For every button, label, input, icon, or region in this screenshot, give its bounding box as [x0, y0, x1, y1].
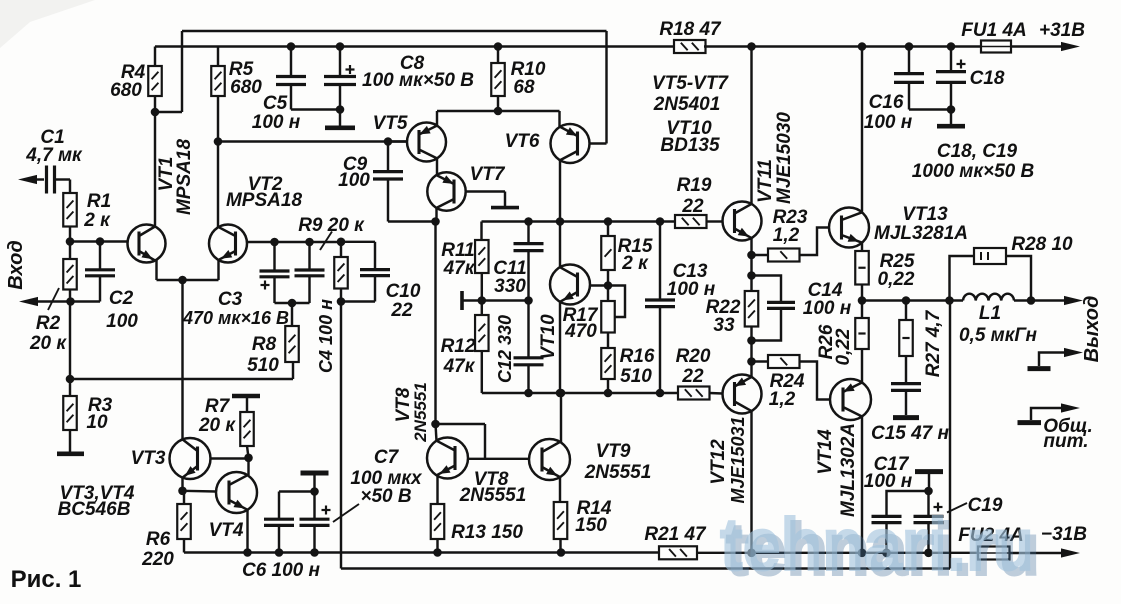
- ground bar C15: [893, 415, 919, 420]
- wire VT7 emitter: [435, 208, 437, 221]
- capacitor C2: [99, 242, 101, 270]
- svg-text:680: 680: [230, 77, 262, 98]
- arrow -31V output: [1061, 548, 1080, 557]
- svg-text:R2: R2: [36, 313, 61, 334]
- resistor R16: [607, 333, 609, 349]
- svg-text:R9 20 к: R9 20 к: [298, 215, 365, 236]
- svg-text:2N5401: 2N5401: [653, 94, 721, 115]
- node R8 top: [288, 299, 297, 308]
- wire mid rail upper: [750, 255, 752, 291]
- node C3 top: [270, 238, 279, 247]
- capacitor C8: [339, 47, 341, 77]
- svg-text:1000 мк×50 В: 1000 мк×50 В: [912, 161, 1035, 182]
- wire VAS top: [482, 220, 676, 222]
- capacitor C10: [341, 241, 375, 243]
- wire VT3 emitter to VT4 base: [181, 478, 183, 491]
- svg-text:C4 100 н: C4 100 н: [316, 299, 336, 373]
- arrow input ground: [19, 297, 38, 306]
- svg-text:C7: C7: [374, 447, 400, 468]
- wire ground bus left: [70, 378, 293, 380]
- node R16 bottom: [604, 389, 613, 398]
- resistor R18: [674, 40, 706, 53]
- wire VT9 collector: [560, 393, 562, 443]
- svg-text:510: 510: [247, 355, 279, 376]
- svg-text:C10: C10: [386, 281, 421, 302]
- svg-text:4,7 мк: 4,7 мк: [25, 145, 83, 166]
- transistor VT11: [723, 202, 762, 241]
- node VT10 emitter: [556, 389, 565, 398]
- svg-text:C16: C16: [869, 92, 904, 113]
- capacitor C14: [752, 276, 782, 303]
- node VT11 emitter: [747, 251, 756, 260]
- wire C7 bar riser: [313, 476, 315, 492]
- svg-text:150: 150: [575, 515, 607, 536]
- svg-text:2N5551: 2N5551: [459, 485, 527, 506]
- capacitor C13: [659, 222, 661, 301]
- svg-text:100: 100: [106, 311, 138, 332]
- wire VT8 emitter: [436, 476, 438, 505]
- common power arrow: [1018, 420, 1042, 425]
- node C14 top stub: [747, 271, 756, 280]
- capacitor C5: [290, 47, 292, 77]
- svg-text:tehnari.ru: tehnari.ru: [720, 504, 1034, 586]
- node R5 bottom: [214, 137, 223, 146]
- node R10 bottom: [494, 107, 503, 116]
- transistor VT5: [407, 123, 446, 162]
- wire mid rail lower: [750, 327, 752, 378]
- svg-text:R13 150: R13 150: [451, 522, 523, 543]
- svg-text:C12 330: C12 330: [495, 315, 515, 383]
- capacitor C1: [45, 166, 48, 194]
- svg-text:R21 47: R21 47: [644, 524, 707, 545]
- watermark tehnari.ru: [720, 504, 1040, 591]
- svg-text:100 мк×50 В: 100 мк×50 В: [362, 70, 474, 91]
- fuse FU1: [981, 41, 1011, 53]
- svg-text:BC546В: BC546В: [58, 499, 131, 520]
- svg-text:R8: R8: [252, 334, 277, 355]
- svg-text:MJE15031: MJE15031: [728, 416, 748, 503]
- capacitor C18: [950, 47, 952, 72]
- resistor R23: [752, 254, 769, 256]
- transistor VT14: [830, 379, 871, 420]
- bottom rail junction dots: [243, 548, 252, 557]
- ground bar C17 C19 top: [915, 469, 943, 474]
- wire emitters VT1 VT2: [155, 260, 157, 280]
- svg-text:C5: C5: [263, 93, 288, 114]
- wire VT9 emitter: [559, 477, 561, 502]
- wire bottom rail right: [697, 552, 978, 554]
- svg-text:2 к: 2 к: [621, 253, 649, 274]
- pointer C7 label: [333, 504, 359, 522]
- svg-text:Выход: Выход: [1081, 296, 1103, 363]
- svg-text:20 к: 20 к: [29, 333, 67, 354]
- svg-text:C2: C2: [109, 288, 134, 309]
- transistor VT13: [829, 208, 869, 248]
- svg-text:MPSA18: MPSA18: [174, 139, 195, 215]
- capacitor C7: [313, 492, 315, 520]
- node C9 top: [384, 137, 393, 146]
- node C12 bottom: [524, 389, 533, 398]
- resistor R22: [745, 291, 759, 327]
- node C6 C7: [310, 487, 319, 496]
- node C17 C19: [924, 487, 933, 496]
- wire VT8 base tie: [436, 423, 486, 425]
- node tail: [178, 276, 187, 285]
- wire VT2 base: [247, 241, 342, 243]
- node R15 top: [604, 217, 613, 226]
- resistor R12: [475, 315, 489, 351]
- capacitor C4: [308, 242, 310, 270]
- wire VT2 collector riser: [217, 142, 219, 228]
- svg-text:+31В: +31В: [1039, 20, 1085, 41]
- svg-text:C6 100 н: C6 100 н: [242, 560, 321, 581]
- resistor R19: [675, 215, 707, 228]
- svg-text:R27 4,7: R27 4,7: [923, 309, 944, 377]
- node input base: [66, 237, 75, 246]
- node R2 R3 junction: [66, 375, 75, 384]
- arrow output: [1064, 296, 1083, 305]
- node VT10 base: [604, 281, 613, 290]
- node C11 top: [524, 217, 533, 226]
- bar mid reference: [460, 291, 464, 310]
- wire VT8 collector line: [434, 222, 436, 425]
- svg-text:20 к: 20 к: [198, 415, 236, 436]
- transistor VT1: [128, 225, 166, 263]
- svg-text:VT5-VT7: VT5-VT7: [652, 73, 729, 94]
- svg-text:R20: R20: [676, 346, 711, 367]
- svg-text:R28 10: R28 10: [1011, 234, 1073, 255]
- svg-text:VT5: VT5: [373, 113, 408, 134]
- wire VT11 collector: [750, 47, 752, 205]
- resistor R21: [659, 546, 697, 559]
- resistor R9: [340, 242, 342, 257]
- svg-text:BD135: BD135: [660, 135, 720, 156]
- svg-text:1,2: 1,2: [773, 225, 800, 246]
- svg-text:VT4: VT4: [209, 520, 244, 541]
- wire VT7 base to bar: [466, 190, 505, 192]
- svg-text:MJE15030: MJE15030: [774, 112, 795, 204]
- transistor VT2: [209, 225, 247, 263]
- resistor R5: [217, 47, 219, 67]
- resistor R14: [554, 502, 568, 539]
- svg-text:VT14: VT14: [815, 429, 836, 475]
- svg-text:2N5551: 2N5551: [411, 382, 430, 443]
- svg-text:22: 22: [681, 366, 704, 387]
- node VT3e R6: [178, 487, 187, 496]
- wire VT1 collector to VT6 base: [155, 111, 182, 113]
- svg-text:R1: R1: [87, 191, 111, 212]
- svg-text:68: 68: [513, 77, 535, 98]
- capacitor C3: [273, 242, 275, 271]
- resistor R7: [246, 396, 248, 412]
- wire output: [862, 299, 963, 301]
- capacitor C12: [527, 301, 529, 358]
- trimmer R17: [607, 286, 609, 302]
- svg-text:VT11: VT11: [755, 159, 776, 203]
- wire tail to VT3: [181, 280, 183, 440]
- transistor VT8: [427, 438, 468, 479]
- wire VT10 collector: [559, 222, 561, 268]
- node feedback out: [945, 296, 954, 305]
- svg-text:C18: C18: [970, 68, 1005, 89]
- resistor R25: [855, 251, 869, 285]
- transistor VT6: [551, 124, 590, 163]
- capacitor C19: [927, 491, 929, 516]
- resistor R3: [69, 379, 71, 396]
- transistor VT7: [427, 172, 465, 210]
- resistor R13: [431, 504, 445, 539]
- svg-text:100 н: 100 н: [803, 298, 852, 319]
- resistor R28 loop: [950, 256, 975, 301]
- arrow input: [18, 175, 37, 184]
- wire VT13 collector: [861, 47, 863, 212]
- node VT8 collector tie: [431, 420, 440, 429]
- node VT10 collector: [556, 217, 565, 226]
- wire VT13 emitter: [861, 243, 863, 251]
- node R24 stub: [747, 357, 756, 366]
- ground bar VT7 base: [491, 206, 519, 210]
- pointer R2 label: [48, 288, 59, 310]
- node C11 C12: [524, 296, 533, 305]
- pointer R9 label: [320, 232, 332, 251]
- svg-text:FU1 4A: FU1 4A: [961, 20, 1026, 41]
- wire R11R12 to C11C12: [482, 299, 529, 301]
- svg-text:47к: 47к: [443, 356, 476, 377]
- ground bar C7 top: [301, 471, 329, 476]
- node R27 top: [902, 296, 911, 305]
- transistor VT3: [170, 438, 211, 479]
- node C2 top: [96, 237, 105, 246]
- svg-text:VT6: VT6: [505, 131, 540, 152]
- svg-text:C15 47 н: C15 47 н: [871, 423, 950, 444]
- node R4 bottom: [151, 108, 160, 117]
- svg-text:Рис. 1: Рис. 1: [11, 566, 82, 593]
- wire VT10 base: [590, 284, 608, 286]
- node R28 right: [1027, 296, 1036, 305]
- svg-text:VT10: VT10: [538, 314, 559, 360]
- wire bottom rail left: [184, 551, 659, 553]
- svg-text:22: 22: [390, 300, 413, 321]
- svg-text:100 н: 100 н: [252, 112, 301, 133]
- ground bar R7 top: [232, 394, 260, 399]
- resistor R4: [154, 47, 156, 67]
- svg-text:510: 510: [620, 366, 652, 387]
- node VT3 base R7: [244, 454, 253, 463]
- wire VT14 collector: [861, 415, 863, 553]
- junction dots on +31V rail: [287, 42, 296, 51]
- svg-text:0,22: 0,22: [833, 328, 854, 365]
- wire VT11 emitter: [750, 238, 752, 256]
- transistor VT10: [550, 265, 590, 305]
- svg-text:C18, C19: C18, C19: [937, 141, 1018, 162]
- svg-text:R6: R6: [146, 529, 171, 550]
- resistor R26: [855, 318, 869, 349]
- node C13 bottom: [656, 389, 665, 398]
- resistor R11: [480, 222, 482, 241]
- wire VT5 emitter to VT7: [436, 159, 438, 176]
- wire VT5 base: [388, 140, 407, 142]
- node VT7 emitter: [431, 217, 440, 226]
- wire VAS bottom: [529, 392, 679, 394]
- node feedback: [337, 297, 346, 306]
- node output left: [858, 296, 867, 305]
- capacitor C15: [891, 382, 921, 385]
- svg-text:0,22: 0,22: [878, 269, 915, 290]
- resistor R6: [183, 491, 185, 504]
- svg-text:33: 33: [713, 315, 735, 336]
- wire to side bar: [463, 299, 482, 301]
- wire VT6 emitter riser: [559, 160, 561, 222]
- transistor VT12: [723, 375, 762, 414]
- resistor R15: [607, 222, 609, 237]
- node R9 top: [337, 238, 346, 247]
- wire VT3 base to R7: [211, 457, 249, 459]
- wire C6 top: [279, 490, 315, 492]
- svg-text:10: 10: [86, 412, 108, 433]
- transistor VT4: [216, 472, 257, 513]
- inductor L1: [963, 294, 1014, 301]
- svg-text:R16: R16: [620, 346, 655, 367]
- wire C3 C4 bottom: [275, 302, 310, 304]
- wire VT1 collector riser: [154, 112, 156, 227]
- node C14 bottom stub: [747, 336, 756, 345]
- wire +31V top rail: [155, 45, 674, 47]
- wire to -31V arrow: [1010, 552, 1067, 554]
- node C8 ground: [336, 105, 345, 114]
- svg-text:−31В: −31В: [1041, 524, 1087, 545]
- transistor VT9: [529, 439, 570, 480]
- svg-text:R19: R19: [677, 175, 712, 196]
- pointer C19 label: [947, 503, 967, 513]
- svg-text:220: 220: [141, 549, 174, 570]
- resistor R20: [678, 387, 710, 400]
- resistor R8: [291, 303, 293, 326]
- svg-text:MPSA18: MPSA18: [226, 190, 302, 211]
- svg-text:×50 В: ×50 В: [360, 486, 412, 507]
- ground bar R3: [57, 451, 84, 456]
- node VT9 collector: [557, 389, 566, 398]
- svg-text:VT7: VT7: [470, 164, 506, 185]
- node R11 R12: [478, 296, 487, 305]
- svg-text:100 н: 100 н: [864, 112, 913, 133]
- wire feedback: [340, 302, 342, 569]
- svg-text:C3: C3: [218, 289, 243, 310]
- capacitor C17: [887, 491, 929, 516]
- wire VT12 collector: [750, 411, 752, 553]
- resistor R27: [905, 301, 907, 321]
- svg-text:R18 47: R18 47: [659, 19, 722, 40]
- svg-text:2 к: 2 к: [83, 210, 111, 231]
- resistor R10: [497, 47, 499, 64]
- ground bar C5 C8: [325, 126, 355, 131]
- svg-text:470: 470: [564, 321, 597, 342]
- resistor R24: [752, 360, 769, 362]
- resistor R2: [69, 242, 71, 260]
- svg-text:0,5 мкГн: 0,5 мкГн: [959, 325, 1038, 346]
- svg-text:пит.: пит.: [1043, 431, 1088, 452]
- node C16 C18 ground: [947, 105, 956, 114]
- capacitor C16: [908, 47, 910, 74]
- capacitor C11: [527, 222, 529, 244]
- wire VT4 emitter: [246, 510, 248, 553]
- svg-text:MJL1302A: MJL1302A: [838, 423, 859, 517]
- speaker return arrow: [1028, 366, 1051, 371]
- svg-text:100: 100: [338, 170, 370, 191]
- svg-text:VT13: VT13: [902, 204, 948, 225]
- svg-text:1,2: 1,2: [769, 389, 796, 410]
- wire VT4 collector: [247, 458, 249, 475]
- svg-text:VT9: VT9: [596, 441, 631, 462]
- svg-text:2N5551: 2N5551: [584, 462, 652, 483]
- svg-text:100 н: 100 н: [864, 471, 913, 492]
- capacitor C6: [264, 518, 294, 521]
- capacitor C9: [387, 142, 389, 172]
- wire VT10 emitter: [559, 302, 561, 394]
- node C13 top: [656, 217, 665, 226]
- svg-text:47к: 47к: [443, 258, 476, 279]
- wire VT5-VT6 top: [437, 110, 560, 112]
- resistor R1: [69, 180, 71, 194]
- svg-text:470 мк×16 В: 470 мк×16 В: [182, 308, 289, 328]
- wire L1 to arrow: [1014, 299, 1068, 301]
- svg-text:VT3: VT3: [131, 448, 166, 469]
- node C4 top: [305, 238, 314, 247]
- fuse FU2: [978, 547, 1010, 560]
- svg-text:330: 330: [494, 276, 526, 297]
- svg-text:Вход: Вход: [5, 240, 27, 289]
- svg-text:VT12: VT12: [708, 439, 729, 485]
- svg-text:22: 22: [681, 196, 704, 217]
- wire base node: [70, 240, 128, 242]
- svg-text:R12: R12: [441, 336, 476, 357]
- svg-text:MJL3281A: MJL3281A: [874, 223, 968, 244]
- svg-text:680: 680: [110, 80, 142, 101]
- arrow +31V output: [1061, 42, 1080, 51]
- ground bar C16 C18: [950, 110, 952, 125]
- wire rail to VT5 base: [218, 140, 407, 142]
- svg-text:R7: R7: [205, 396, 231, 417]
- svg-text:L1: L1: [979, 303, 1001, 324]
